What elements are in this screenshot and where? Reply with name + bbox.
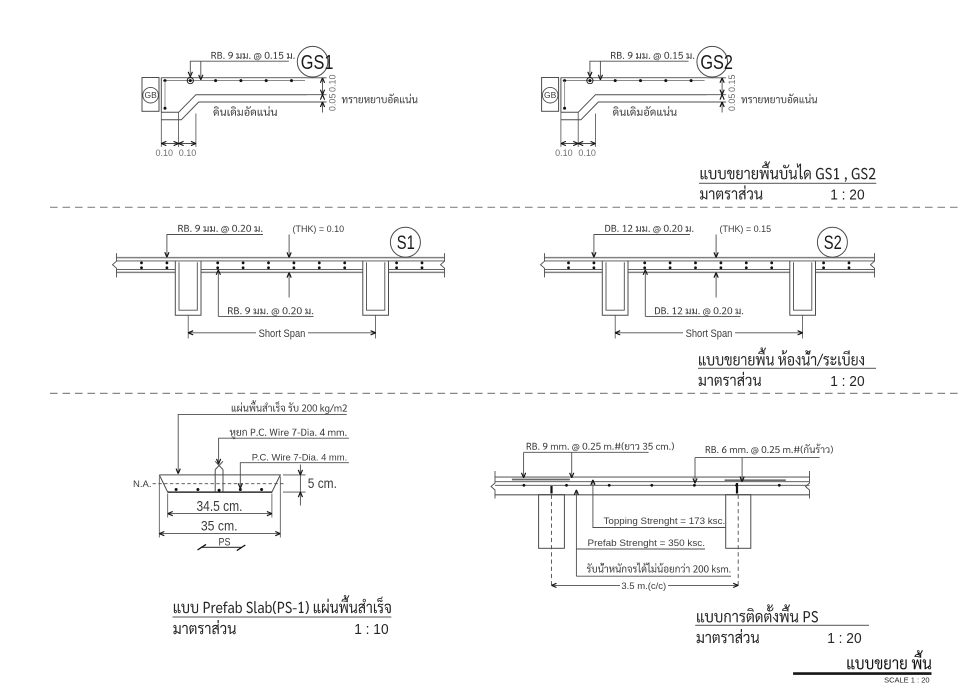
svg-text:0.10: 0.10 xyxy=(555,148,573,158)
34.5 cm dim xyxy=(167,494,169,518)
slab top line xyxy=(161,77,307,79)
GB circle xyxy=(143,87,159,103)
svg-text:1 : 20: 1 : 20 xyxy=(830,187,864,203)
svg-text:P.C. Wire 7-Dia. 4 mm.: P.C. Wire 7-Dia. 4 mm. xyxy=(252,452,347,462)
slab rebar dots xyxy=(567,262,570,265)
svg-text:GB: GB xyxy=(144,90,157,100)
beam 1 xyxy=(602,261,628,315)
leader for RB label xyxy=(590,61,689,74)
svg-text:1 : 20: 1 : 20 xyxy=(827,631,861,647)
title 1 underline xyxy=(699,182,876,184)
right break mark xyxy=(441,253,445,277)
slab top line xyxy=(561,77,707,79)
right thickness dim ticks xyxy=(707,77,727,79)
svg-text:5 cm.: 5 cm. xyxy=(308,476,337,491)
bent-down rebar at left xyxy=(164,81,166,108)
svg-text:SCALE 1 : 20: SCALE 1 : 20 xyxy=(884,676,929,685)
slab bottom-left step xyxy=(561,95,707,113)
short span dim xyxy=(187,315,189,338)
text sand xyxy=(741,94,817,104)
svg-text:Short Span: Short Span xyxy=(259,328,306,340)
slab bottom lines xyxy=(545,268,603,270)
detail bubble GS xyxy=(697,46,728,77)
title4 xyxy=(697,604,818,622)
right thickness dim ticks xyxy=(307,77,327,79)
svg-text:GS2: GS2 xyxy=(700,52,733,74)
RB9 top bars xyxy=(512,479,570,481)
P.C. wire dots xyxy=(175,488,178,491)
ground beam GB box xyxy=(542,78,559,112)
beam 2 xyxy=(790,261,816,315)
sand layer bottom xyxy=(561,102,707,120)
top rebar line xyxy=(563,80,705,82)
svg-text:PS: PS xyxy=(219,536,231,548)
beam 2 xyxy=(363,261,389,315)
svg-text:GS1: GS1 xyxy=(301,52,334,74)
text soil xyxy=(213,106,277,116)
svg-text:S1: S1 xyxy=(397,233,415,254)
bottom dim line 0.10 0.10 xyxy=(561,143,596,145)
bottom dim extension lines xyxy=(160,112,162,147)
slab rebar dots xyxy=(140,262,143,265)
svg-text:0.10: 0.10 xyxy=(327,74,337,92)
support 2 xyxy=(726,495,751,549)
rebar dots xyxy=(164,79,167,82)
short span dim xyxy=(614,315,616,338)
svg-text:3.5 m.(c/c): 3.5 m.(c/c) xyxy=(621,581,666,592)
thickness dim line xyxy=(721,78,723,95)
detail bubble xyxy=(390,227,420,257)
title2 xyxy=(699,347,864,366)
text sand xyxy=(342,94,418,104)
slab left edge xyxy=(560,77,562,112)
scale word 4 xyxy=(697,629,759,643)
svg-text:0.05: 0.05 xyxy=(327,94,337,112)
beam 1 xyxy=(175,261,201,315)
text RB6 label xyxy=(706,444,833,455)
svg-text:1 : 10: 1 : 10 xyxy=(354,622,388,638)
svg-text:Short Span: Short Span xyxy=(686,328,733,340)
svg-text:(THK) = 0.10: (THK) = 0.10 xyxy=(293,223,345,234)
scale word 1 xyxy=(700,185,762,199)
dashed separator 2 xyxy=(50,392,960,394)
text bottom rebar xyxy=(655,307,743,315)
circled rebar dot xyxy=(588,79,591,82)
circled rebar dot xyxy=(189,79,192,82)
svg-text:0.15: 0.15 xyxy=(727,74,737,92)
text RB label xyxy=(211,52,294,60)
slab left edge xyxy=(160,77,162,112)
svg-text:GB: GB xyxy=(544,90,557,100)
svg-text:0.05: 0.05 xyxy=(727,94,737,112)
slab bottom lines xyxy=(117,268,176,270)
lifting hook xyxy=(214,470,216,492)
GB circle xyxy=(542,87,558,103)
left break mark xyxy=(113,253,117,277)
svg-text:Topping Strenght = 173 ksc.: Topping Strenght = 173 ksc. xyxy=(604,516,726,526)
text top rebar xyxy=(605,225,693,233)
text bottom rebar xyxy=(228,307,313,315)
svg-text:(THK) = 0.15: (THK) = 0.15 xyxy=(720,223,772,234)
plank wire dots xyxy=(523,484,526,487)
svg-text:35 cm.: 35 cm. xyxy=(201,519,238,534)
THK leader arrows xyxy=(715,235,717,256)
title1 xyxy=(701,161,876,182)
svg-text:0.10: 0.10 xyxy=(179,148,197,158)
35 cm dim xyxy=(158,477,160,538)
thickness dim line xyxy=(322,78,324,95)
svg-text:Prefab Strenght = 350 ksc.: Prefab Strenght = 350 ksc. xyxy=(588,538,706,548)
title3 xyxy=(174,595,391,614)
title 4 underline xyxy=(695,624,869,626)
plank joint marks xyxy=(550,486,552,494)
detail bubble GS xyxy=(297,46,328,77)
svg-text:S2: S2 xyxy=(824,233,842,254)
scale word 3 xyxy=(173,620,235,634)
text load label xyxy=(587,562,731,572)
scale word 2 xyxy=(699,372,761,386)
3.5 m dim xyxy=(552,584,621,586)
bottom dim line 0.10 0.10 xyxy=(161,143,196,145)
slab bottom-left step xyxy=(161,95,307,113)
slab top lines xyxy=(117,257,445,259)
text RB label xyxy=(611,52,694,60)
support 1 xyxy=(539,495,565,549)
topping/plank lines xyxy=(495,476,810,478)
detail bubble xyxy=(817,227,847,257)
text soil xyxy=(613,106,677,116)
5 cm dim xyxy=(283,474,306,476)
sand layer bottom xyxy=(161,102,307,120)
text top rebar xyxy=(178,225,262,233)
text hook label xyxy=(230,429,347,440)
leader for RB label xyxy=(190,61,289,74)
text RB9 label xyxy=(527,442,674,451)
THK leader arrows xyxy=(288,235,290,256)
sheet title xyxy=(847,650,931,669)
dashed separator 1 xyxy=(50,206,960,208)
rebar dots xyxy=(563,79,566,82)
svg-text:0.10: 0.10 xyxy=(156,148,174,158)
svg-text:N.A.: N.A. xyxy=(133,479,151,490)
text prefab label xyxy=(232,400,347,414)
svg-text:0.10: 0.10 xyxy=(578,148,596,158)
title 2 underline xyxy=(698,367,876,369)
slab top lines xyxy=(545,257,875,259)
svg-text:1 : 20: 1 : 20 xyxy=(830,374,864,390)
title 3 underline xyxy=(173,616,392,618)
sheet title rule xyxy=(793,672,931,675)
left break mark xyxy=(541,253,545,277)
neutral axis dashed xyxy=(153,483,284,485)
left break mark xyxy=(491,471,495,499)
right break mark xyxy=(871,253,875,277)
slab trapezoid xyxy=(159,475,280,492)
top rebar line xyxy=(163,80,305,82)
svg-text:34.5 cm.: 34.5 cm. xyxy=(197,498,243,515)
bent-down rebar at left xyxy=(564,81,566,108)
right break mark xyxy=(806,471,810,499)
ground beam GB box xyxy=(142,78,159,112)
bottom dim extension lines xyxy=(560,112,562,147)
